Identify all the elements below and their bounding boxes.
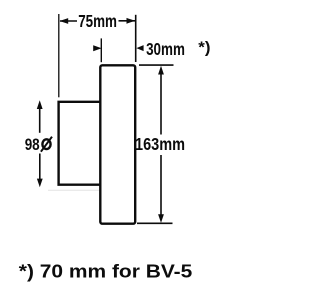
75mm dimension line right segment [119, 20, 136, 22]
75mm dimension arrowhead left [60, 18, 69, 24]
faint scan smudge under cylinder [48, 189, 99, 191]
flange body outline [100, 65, 135, 223]
footnote marker next to 30mm [198, 40, 210, 57]
extension line left of 75mm dimension [58, 14, 60, 97]
98 diameter dimension line upper segment [39, 104, 41, 133]
98 diameter dimension arrowhead down [37, 179, 43, 188]
30mm dimension value label [146, 39, 185, 59]
svg-text:163mm: 163mm [135, 134, 185, 154]
30mm dimension arrowhead right (outside pointing left) [136, 45, 143, 51]
svg-text:75mm: 75mm [78, 11, 117, 31]
163mm dimension top tick line [139, 64, 174, 66]
75mm dimension arrowhead right [127, 18, 136, 24]
163mm dimension arrowhead down [158, 214, 164, 223]
footnote text: *) 70 mm for BV-5 [19, 260, 193, 281]
extension line right shared by 75mm and 30mm dimensions [135, 15, 137, 62]
svg-text:*): *) [198, 40, 210, 57]
98 diameter dimension line lower segment [39, 154, 41, 184]
163mm dimension line lower segment [160, 155, 162, 218]
98 diameter dimension arrowhead up [37, 100, 43, 109]
163mm dimension value label [135, 134, 185, 154]
163mm dimension bottom tick line [137, 222, 173, 224]
svg-text:30mm: 30mm [146, 39, 185, 59]
30mm dimension arrowhead left (outside pointing right) [93, 45, 101, 51]
75mm dimension value label [78, 11, 117, 31]
163mm dimension arrowhead up [158, 66, 164, 75]
98 diameter value label [25, 135, 52, 154]
svg-text:98: 98 [25, 135, 40, 154]
163mm dimension line upper segment [160, 71, 162, 135]
cylinder body outline [59, 102, 101, 185]
svg-text:*) 70 mm for BV-5: *) 70 mm for BV-5 [19, 260, 193, 281]
extension line left of 30mm dimension [100, 38, 102, 62]
75mm dimension line left segment [60, 20, 77, 22]
